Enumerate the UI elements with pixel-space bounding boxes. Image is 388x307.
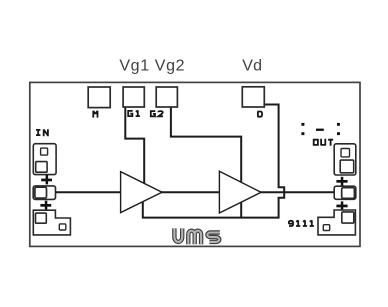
wire input line [56, 191, 122, 193]
IN ground pad stepped outline [33, 210, 70, 235]
label OUT [314, 139, 333, 146]
OUT cap small via square [341, 149, 350, 157]
wire output line [260, 191, 335, 193]
label D [258, 112, 263, 117]
pad G1 [123, 87, 144, 107]
IN cap big via square [36, 162, 47, 173]
label G2 [151, 111, 163, 116]
OUT RF pad [334, 186, 356, 199]
OUT cap big via square [340, 160, 354, 173]
op-amp stage 1 triangle [121, 172, 162, 213]
IN dc-block capacitor pad [33, 144, 56, 175]
label 9111 [289, 220, 314, 226]
wire G2 bias [171, 107, 241, 185]
OUT ground big via [342, 212, 354, 223]
OUT airbridge plus 2 [336, 201, 347, 210]
label M [93, 111, 97, 118]
svg-text:Vg1 Vg2: Vg1 Vg2 [119, 58, 185, 75]
svg-text:Vd: Vd [242, 58, 262, 75]
OUT dc-block capacitor pad [334, 144, 356, 175]
UMS logo [174, 228, 219, 244]
orientation dots [301, 123, 340, 135]
IN ground small via [59, 224, 66, 230]
OUT RF pad inner square [342, 188, 355, 199]
wire G1 bias [125, 107, 144, 186]
chip outline [30, 82, 360, 246]
IN cap small via square [41, 148, 48, 155]
wire D bias with hop over output [143, 105, 284, 218]
label IN [36, 129, 48, 136]
IN RF pad inner square [35, 187, 47, 198]
pad M [88, 87, 110, 108]
IN airbridge plus 1 [41, 175, 52, 184]
label G1 [128, 110, 140, 116]
OUT ground pad stepped outline [318, 210, 355, 235]
pad G2 [156, 87, 177, 107]
op-amp stage 2 triangle [219, 171, 261, 213]
wire interstage line [161, 191, 220, 193]
OUT ground small via [323, 225, 329, 231]
IN RF pad [33, 186, 55, 200]
IN airbridge plus 2 [40, 201, 51, 210]
IN ground big via [36, 213, 47, 223]
OUT airbridge plus 1 [336, 177, 347, 186]
pad D [242, 87, 264, 107]
